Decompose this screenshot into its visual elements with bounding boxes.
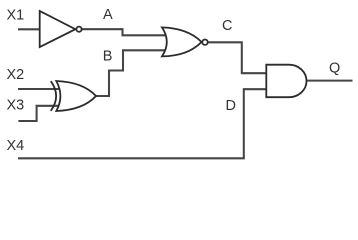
svg-text:B: B bbox=[103, 48, 113, 64]
op XOR gate U2 extra input arc bbox=[51, 81, 56, 111]
op NOT gate U1 triangle bbox=[40, 11, 76, 47]
wire X2 input bbox=[18, 88, 62, 90]
svg-text:X3: X3 bbox=[7, 97, 25, 113]
wire X3 input bbox=[18, 106, 62, 121]
svg-text:X2: X2 bbox=[7, 67, 25, 83]
wire X1 input bbox=[18, 28, 40, 30]
svg-text:Q: Q bbox=[329, 60, 340, 76]
svg-text:A: A bbox=[103, 7, 113, 23]
op NOR gate U3 bubble bbox=[202, 40, 207, 45]
op NOT gate U1 bubble bbox=[76, 27, 81, 32]
wire net B (XOR output to NOR bottom input) bbox=[95, 50, 167, 96]
wire Q output bbox=[307, 80, 353, 82]
svg-text:X1: X1 bbox=[7, 8, 25, 24]
wire net C (NOR output to AND top input) bbox=[207, 42, 266, 73]
op XOR gate U2 body bbox=[56, 81, 96, 111]
op NOR gate U3 body bbox=[162, 27, 202, 56]
svg-text:C: C bbox=[222, 18, 232, 34]
wire X4 / net D (to AND bottom input) bbox=[18, 89, 266, 158]
wire net A (inverter output to NOR top input) bbox=[82, 29, 168, 35]
svg-text:D: D bbox=[226, 98, 236, 114]
op AND gate U4 body bbox=[266, 65, 306, 98]
svg-text:X4: X4 bbox=[7, 138, 25, 154]
